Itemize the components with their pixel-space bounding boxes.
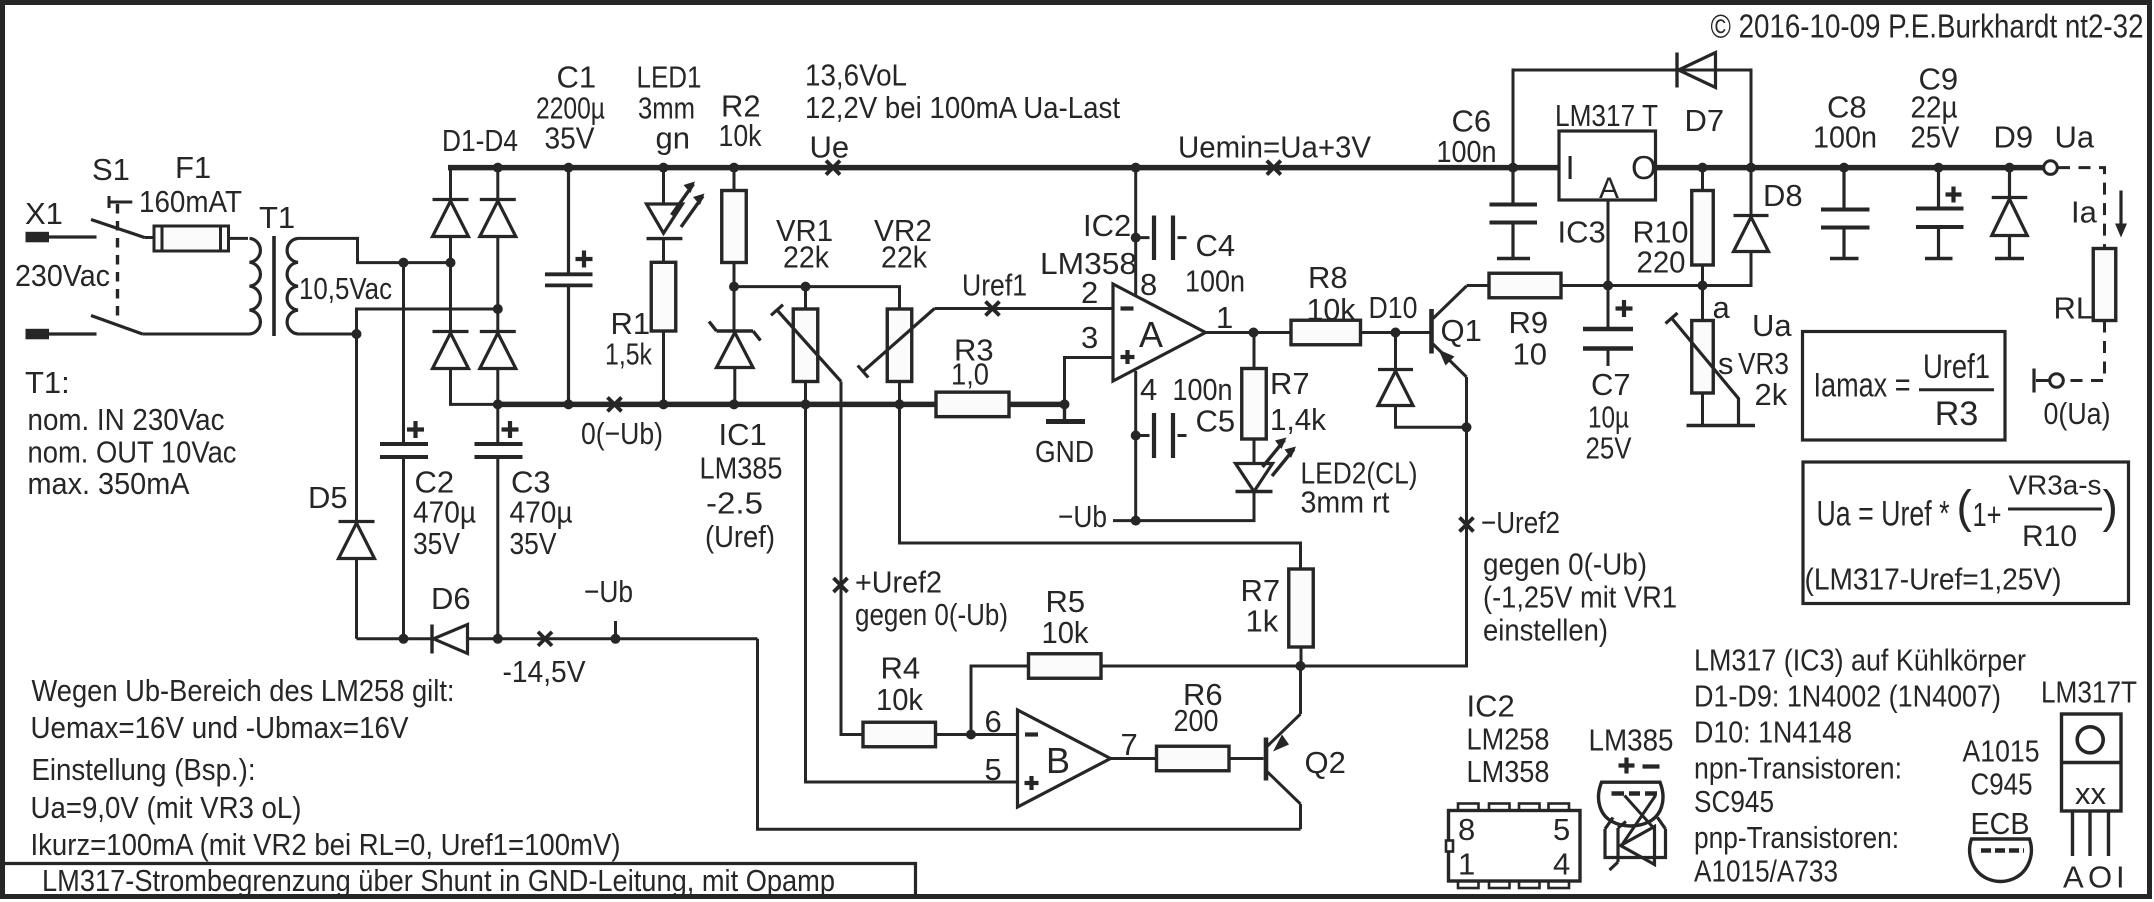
svg-text:Uemin=Ua+3V: Uemin=Ua+3V [1178, 130, 1371, 165]
svg-text:-14,5V: -14,5V [503, 654, 586, 689]
node GND [1060, 399, 1070, 409]
svg-text:Ua: Ua [2055, 120, 2095, 155]
node -Ub terminal [611, 634, 621, 644]
svg-text:C7: C7 [1591, 367, 1631, 402]
node C2 minus [399, 634, 409, 644]
svg-text:0(−Ub): 0(−Ub) [581, 416, 663, 451]
wire VR1 wiper to R4 [841, 382, 863, 735]
resistor R4 [863, 722, 936, 747]
node -Ub opamp [1131, 516, 1141, 526]
svg-text:160mAT: 160mAT [139, 184, 242, 219]
svg-text:LED1: LED1 [637, 60, 702, 95]
wire Uref1 to opamp pin2 [935, 307, 1114, 310]
node C3 minus [493, 634, 503, 644]
diode D4 [496, 309, 499, 332]
wire Uref node to VR1 VR2 [734, 287, 900, 309]
load RL dashed [2058, 168, 2105, 381]
svg-text:D9: D9 [1994, 120, 2034, 155]
svg-text:D10: D10 [1369, 290, 1418, 325]
wire secondary bottom to bridge [298, 309, 498, 334]
svg-text:R3: R3 [1935, 395, 1978, 433]
terminal Ua [2044, 161, 2058, 175]
svg-text:3mm rt: 3mm rt [1301, 485, 1390, 520]
svg-text:1,0: 1,0 [951, 357, 989, 392]
svg-text:nom. OUT 10Vac: nom. OUT 10Vac [28, 435, 237, 470]
svg-text:+Uref2: +Uref2 [855, 565, 942, 600]
svg-text:O: O [2088, 860, 2112, 895]
capacitor C9 [1934, 163, 1944, 173]
svg-text:8: 8 [1140, 267, 1157, 302]
package TO-220 LM317T [2062, 714, 2122, 811]
wire Ue top rail [448, 165, 2044, 171]
svg-text:13,6VoL: 13,6VoL [805, 58, 907, 93]
svg-text:Wegen Ub-Bereich des LM258 gil: Wegen Ub-Bereich des LM258 gilt: [32, 673, 455, 708]
svg-text:D5: D5 [308, 480, 348, 515]
svg-text:LM385: LM385 [1589, 723, 1674, 758]
capacitor C4 [1131, 233, 1141, 243]
svg-text:8: 8 [1458, 812, 1475, 847]
svg-text:Ua: Ua [1752, 308, 1792, 343]
svg-text:Ua=9,0V (mit VR3 oL): Ua=9,0V (mit VR3 oL) [31, 790, 302, 825]
svg-text:ECB: ECB [1971, 806, 2030, 841]
svg-text:gegen 0(-Ub): gegen 0(-Ub) [1483, 547, 1647, 582]
wire R4 node to R5 [971, 666, 1029, 735]
svg-text:nom. IN 230Vac: nom. IN 230Vac [28, 402, 225, 437]
diode D6 [430, 625, 433, 654]
svg-text:A1015/A733: A1015/A733 [1694, 854, 1838, 889]
svg-text:D1-D9: 1N4002 (1N4007): D1-D9: 1N4002 (1N4007) [1694, 679, 2001, 714]
svg-text:7: 7 [1121, 727, 1138, 762]
svg-text:LM258: LM258 [1467, 722, 1550, 757]
svg-text:100n: 100n [1173, 372, 1233, 407]
capacitor C1 [564, 163, 574, 173]
svg-text:IC1: IC1 [719, 417, 767, 452]
node D2 top rail [493, 163, 503, 173]
capacitor C3 [496, 404, 499, 444]
resistor R8 [1291, 320, 1361, 345]
svg-text:SC945: SC945 [1694, 784, 1774, 819]
svg-text:LM385: LM385 [700, 451, 783, 486]
svg-text:max. 350mA: max. 350mA [28, 466, 190, 501]
svg-text:VR3a-s: VR3a-s [2009, 470, 2102, 501]
resistor R7 1,4k [1242, 369, 1267, 440]
x-mark Uemin [1267, 161, 1281, 175]
svg-text:10k: 10k [1307, 292, 1356, 327]
wire adj to D8 [1608, 252, 1751, 286]
svg-text:RL: RL [2054, 291, 2094, 326]
wire D6 to -Ub net [468, 637, 758, 640]
wire X1 top to S1 [49, 235, 97, 238]
resistor R1 [651, 262, 676, 331]
node secondary bottom / D5 [352, 329, 362, 339]
zener IC1 LM385 [709, 322, 761, 341]
x-mark Ue [826, 161, 840, 175]
switch S1 linkage [116, 204, 119, 318]
resistor R9 [1467, 284, 1490, 287]
box Ua formula [1803, 462, 2129, 604]
x-mark -14,5V [538, 632, 552, 646]
svg-text:1,4k: 1,4k [1270, 402, 1326, 437]
package DIP-8 IC2 [1449, 811, 1581, 882]
op-amp IC2A [1113, 284, 1206, 381]
svg-text:a: a [1713, 290, 1731, 325]
resistor R7 1k [1289, 569, 1314, 647]
svg-text:3: 3 [1081, 320, 1098, 355]
svg-text:(Uref): (Uref) [705, 519, 775, 554]
wire secondary top to bridge [298, 238, 451, 262]
node bridge col1 AC [446, 258, 456, 268]
svg-text:Uref1: Uref1 [1923, 348, 1990, 386]
svg-text:100n: 100n [1813, 120, 1877, 155]
op-amp IC2B [1018, 710, 1111, 807]
wire Q2 collector [1299, 666, 1302, 714]
svg-text:10k: 10k [1042, 615, 1089, 650]
svg-text:22k: 22k [783, 240, 829, 275]
diode D3 [449, 263, 452, 332]
title box [5, 864, 916, 895]
svg-text:D6: D6 [431, 581, 471, 616]
svg-text:): ) [2103, 481, 2118, 533]
svg-text:2: 2 [1081, 275, 1098, 310]
svg-text:470µ: 470µ [510, 495, 573, 530]
svg-text:I: I [2116, 860, 2125, 895]
svg-text:IC2: IC2 [1467, 689, 1515, 724]
svg-text:I: I [1566, 149, 1575, 186]
svg-text:5: 5 [985, 752, 1002, 787]
svg-text:10,5Vac: 10,5Vac [299, 271, 392, 306]
diode D9 [2005, 163, 2015, 173]
svg-text:D10: 1N4148: D10: 1N4148 [1694, 715, 1852, 750]
svg-text:npn-Transistoren:: npn-Transistoren: [1694, 751, 1902, 786]
svg-text:220: 220 [1637, 245, 1686, 280]
svg-text:35V: 35V [510, 526, 557, 561]
svg-text:1: 1 [1216, 300, 1233, 335]
svg-text:Q1: Q1 [1441, 313, 1482, 348]
svg-text:C4: C4 [1196, 228, 1236, 263]
svg-text:R10: R10 [2022, 520, 2077, 553]
transistor Q2 [1264, 738, 1269, 781]
svg-text:LM317-Strombegrenzung über Shu: LM317-Strombegrenzung über Shunt in GND-… [42, 863, 835, 898]
svg-text:10k: 10k [719, 118, 762, 153]
svg-text:T1:: T1: [25, 365, 70, 400]
node bridge col2 AC [493, 304, 503, 314]
diode D2 [496, 168, 499, 200]
transistor Q1 [1429, 309, 1434, 354]
arrow Ia [2119, 191, 2122, 227]
svg-text:R4: R4 [881, 651, 921, 686]
svg-text:D7: D7 [1685, 103, 1725, 138]
diode D7 [1675, 53, 1678, 88]
svg-text:Ue: Ue [810, 130, 850, 165]
trimmer VR3 [1701, 286, 1704, 321]
node secondary top / C2 [399, 258, 409, 268]
wire pin1 node [1206, 331, 1292, 334]
svg-text:LM358: LM358 [1467, 754, 1550, 789]
wire 0-rail to opamp pin5 [806, 404, 1018, 782]
svg-text:IC3: IC3 [1558, 215, 1606, 250]
capacitor C2 [402, 263, 405, 444]
svg-text:LM317 (IC3) auf Kühlkörper: LM317 (IC3) auf Kühlkörper [1694, 643, 2026, 678]
svg-text:R5: R5 [1046, 584, 1086, 619]
node bridge minus on rail [493, 399, 503, 409]
svg-text:22k: 22k [881, 240, 927, 275]
svg-text:D8: D8 [1763, 178, 1803, 213]
svg-text:s: s [1718, 346, 1734, 381]
svg-text:(: ( [1957, 481, 1973, 533]
LED LED2 [1236, 464, 1273, 492]
wire opamp V+ pin8 [1131, 163, 1141, 173]
terminal X1 pin 2 [26, 329, 50, 340]
svg-text:A: A [1599, 172, 1619, 205]
switch S1 pole 2 [91, 316, 143, 335]
svg-text:LM317T: LM317T [2041, 675, 2137, 710]
terminal 0(Ua) [2050, 374, 2064, 388]
svg-text:12,2V bei 100mA Ua-Last: 12,2V bei 100mA Ua-Last [805, 90, 1120, 125]
diode D1 [449, 168, 452, 200]
wire opamp V- pin4 [1134, 371, 1137, 521]
x-mark +Uref2 [834, 578, 848, 592]
diode D5 [355, 334, 358, 522]
svg-text:D1-D4: D1-D4 [442, 123, 518, 158]
svg-text:1k: 1k [1246, 604, 1279, 639]
wire GND node to opamp pin3 [1065, 358, 1114, 405]
svg-text:gegen 0(-Ub): gegen 0(-Ub) [855, 597, 1008, 632]
capacitor C5 [1131, 431, 1141, 441]
x-mark -Uref2 [1460, 518, 1474, 532]
resistor RL [2093, 249, 2116, 321]
capacitor C8 [1839, 163, 1849, 173]
transformer T1 core [272, 236, 276, 336]
svg-text:R7: R7 [1270, 366, 1310, 401]
svg-text:Iamax =: Iamax = [1814, 367, 1911, 405]
svg-text:R9: R9 [1509, 305, 1549, 340]
svg-text:1+: 1+ [1973, 496, 2002, 533]
svg-text:4: 4 [1553, 847, 1570, 882]
svg-text:Q2: Q2 [1305, 745, 1346, 780]
transformer T1 primary [143, 333, 250, 336]
svg-text:einstellen): einstellen) [1483, 613, 1608, 648]
svg-text:Uref1: Uref1 [962, 268, 1027, 303]
svg-text:100n: 100n [1185, 264, 1245, 299]
x-mark 0(-Ub) [608, 397, 622, 411]
wire -Ub row [357, 637, 433, 640]
svg-text:10µ: 10µ [1588, 400, 1629, 435]
regulator LM317 IC3 [1559, 131, 1656, 200]
svg-text:pnp-Transistoren:: pnp-Transistoren: [1694, 820, 1899, 855]
svg-text:A1015: A1015 [1963, 734, 2040, 769]
wire X1 bottom to S1 [49, 332, 97, 335]
resistor R2 [729, 163, 739, 173]
svg-text:GND: GND [1035, 434, 1094, 469]
LED LED1 [659, 163, 669, 173]
wire VR2 to R7 top [900, 404, 1301, 569]
LED1 arrows [672, 184, 704, 227]
svg-text:10: 10 [1513, 337, 1547, 372]
svg-text:230Vac: 230Vac [15, 258, 110, 293]
node -Uref2 R5 R7 [1296, 661, 1306, 671]
diode D7 loop [1513, 70, 1751, 168]
svg-text:O: O [1631, 149, 1657, 186]
svg-text:Ia: Ia [2071, 195, 2098, 230]
svg-text:Ikurz=100mA (mit VR2 bei RL=0,: Ikurz=100mA (mit VR2 bei RL=0, Uref1=100… [31, 827, 621, 862]
svg-text:A: A [1139, 314, 1163, 355]
svg-text:F1: F1 [175, 150, 211, 185]
svg-text:4: 4 [1140, 372, 1157, 407]
svg-text:200: 200 [1174, 703, 1219, 738]
svg-text:S1: S1 [92, 152, 130, 187]
svg-text:gn: gn [656, 121, 690, 156]
svg-text:(-1,25V mit VR1: (-1,25V mit VR1 [1483, 580, 1677, 615]
svg-text:−Ub: −Ub [1058, 499, 1107, 534]
svg-text:10k: 10k [876, 682, 923, 717]
svg-text:1,5k: 1,5k [605, 337, 652, 372]
trimmer VR1 [801, 282, 811, 292]
trimmer VR2 [887, 309, 912, 382]
ground GND [1063, 404, 1066, 419]
svg-text:6: 6 [985, 704, 1002, 739]
terminal X1 pin 1 [26, 232, 50, 243]
svg-text:1: 1 [1458, 847, 1475, 882]
svg-text:Ua = Uref *: Ua = Uref * [1817, 495, 1950, 534]
svg-text:25V: 25V [1586, 431, 1632, 466]
node Uref [729, 282, 739, 292]
svg-text:LM317 T: LM317 T [1555, 98, 1658, 133]
svg-text:-2.5: -2.5 [706, 486, 763, 521]
fuse F1 [145, 236, 249, 240]
wire -Ub return to Q2 emitter [758, 639, 1301, 829]
svg-text:R8: R8 [1308, 260, 1348, 295]
svg-text:IC2: IC2 [1083, 208, 1131, 243]
svg-text:0(Ua): 0(Ua) [2044, 396, 2111, 431]
svg-text:(LM317-Uref=1,25V): (LM317-Uref=1,25V) [1805, 562, 2062, 597]
resistor R6 [1111, 757, 1157, 760]
svg-text:−Ub: −Ub [584, 574, 633, 609]
svg-text:Uemax=16V und -Ubmax=16V: Uemax=16V und -Ubmax=16V [31, 710, 409, 745]
transformer T1 secondary [287, 238, 298, 334]
diode D10 [1394, 333, 1397, 370]
svg-text:© 2016-10-09 P.E.Burkhardt nt2: © 2016-10-09 P.E.Burkhardt nt2-32 [1711, 8, 2144, 45]
svg-text:100n: 100n [1437, 134, 1497, 169]
svg-text:X1: X1 [25, 196, 63, 231]
wire 0(-Ub) bottom rail [498, 402, 1065, 408]
svg-text:35V: 35V [545, 121, 595, 156]
svg-text:xx: xx [2075, 776, 2107, 811]
svg-text:C5: C5 [1196, 404, 1236, 439]
svg-text:5: 5 [1553, 812, 1570, 847]
LED2 arrows [1263, 440, 1295, 476]
capacitor C7 [1607, 286, 1610, 328]
switch S1 pole 1 [91, 220, 145, 238]
resistor R3 [936, 392, 1009, 417]
diode D8 [1734, 216, 1769, 252]
svg-text:A: A [2063, 860, 2084, 895]
svg-text:C1: C1 [557, 60, 597, 95]
svg-text:Einstellung (Bsp.):: Einstellung (Bsp.): [32, 752, 256, 787]
svg-text:35V: 35V [413, 526, 460, 561]
svg-text:25V: 25V [1911, 120, 1960, 155]
svg-text:B: B [1046, 740, 1070, 781]
svg-text:2k: 2k [1755, 377, 1788, 412]
package TO-92 npn/pnp [1970, 839, 2032, 882]
box Iamax formula [1803, 332, 2006, 441]
svg-text:470µ: 470µ [413, 495, 476, 530]
wire LM317 adj [1607, 200, 1610, 286]
resistor R10 [1701, 168, 1704, 191]
svg-text:−Uref2: −Uref2 [1481, 505, 1560, 540]
svg-text:VR3: VR3 [1738, 346, 1789, 381]
capacitor C6 [1508, 163, 1518, 173]
svg-text:C945: C945 [1971, 767, 2033, 802]
wire Q2 emitter [1299, 804, 1302, 829]
svg-text:T1: T1 [259, 200, 295, 235]
wire Q1 emitter to -Uref2 [1301, 377, 1467, 666]
x-mark Uref1 [986, 302, 1000, 316]
resistor R5 [1029, 654, 1102, 679]
